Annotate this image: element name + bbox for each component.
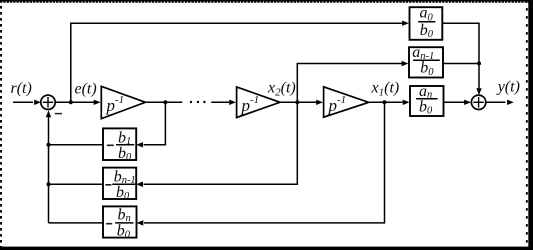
svg-text:r(t): r(t) — [11, 80, 32, 97]
svg-text:e(t): e(t) — [75, 81, 97, 98]
svg-text:x2(t): x2(t) — [267, 80, 296, 99]
svg-text:x1(t): x1(t) — [371, 80, 400, 99]
svg-text:y(t): y(t) — [496, 79, 520, 96]
